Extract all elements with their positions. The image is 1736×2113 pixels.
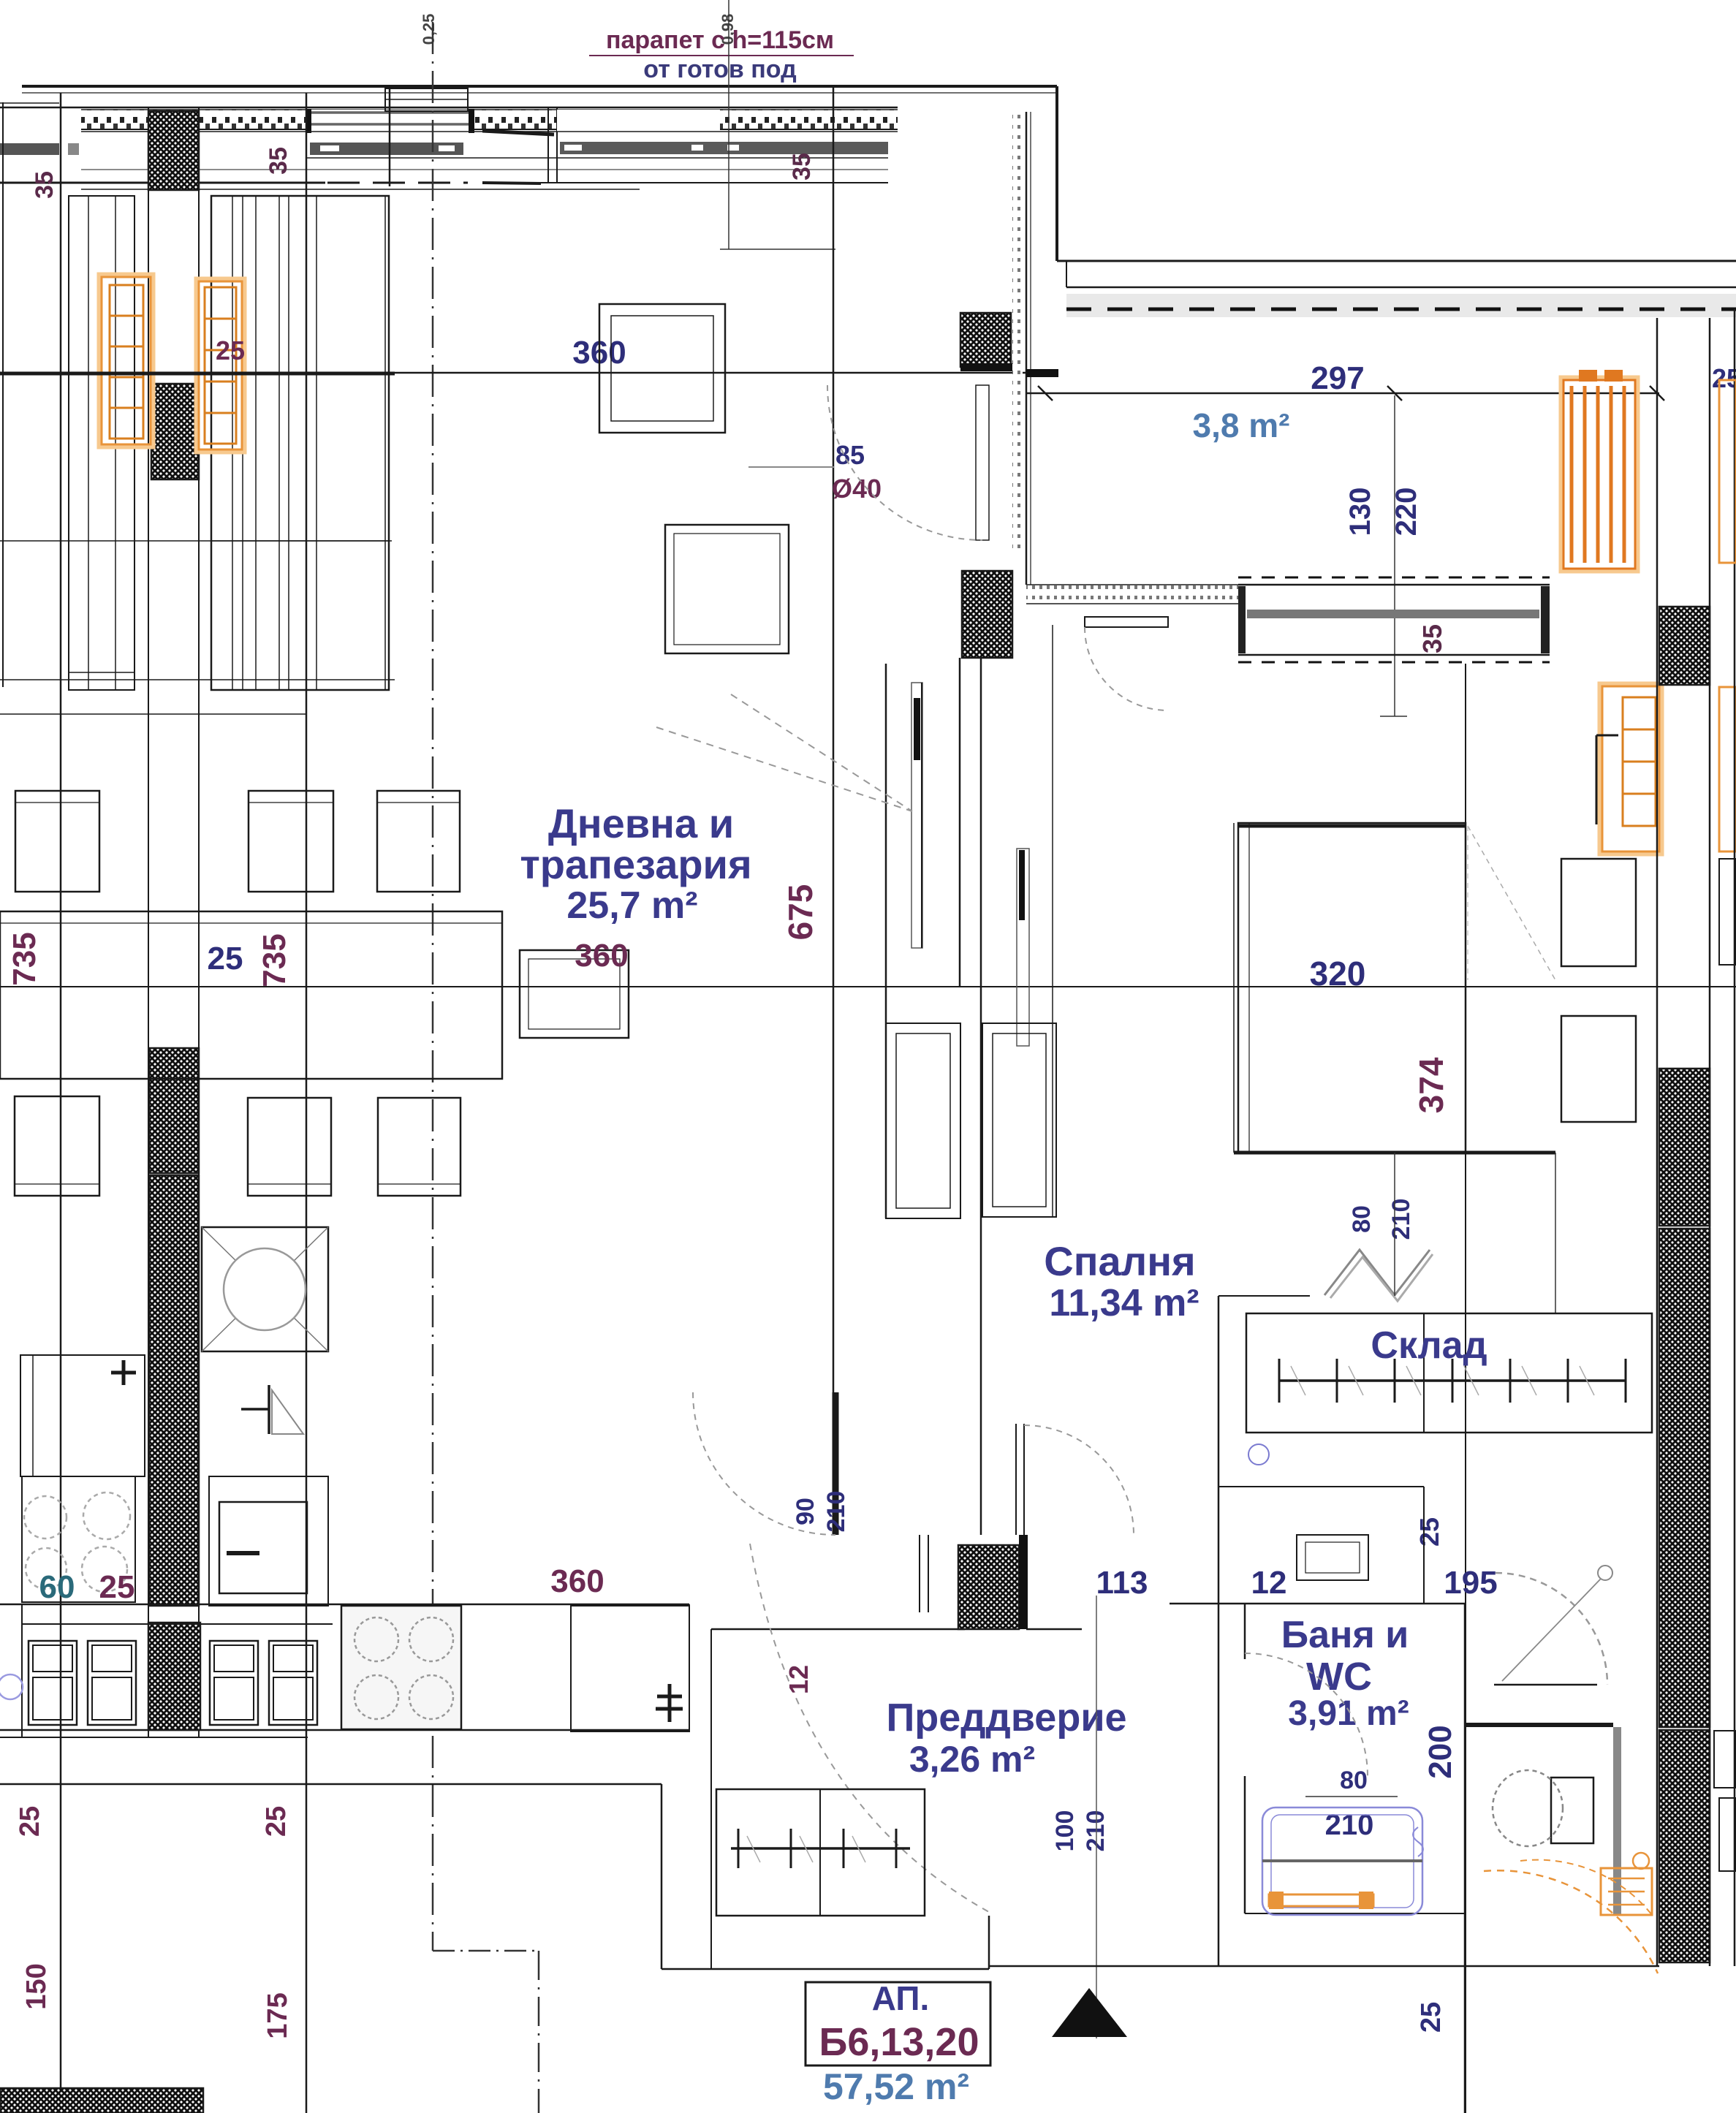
wardrobe A: [69, 196, 134, 690]
sill thin bottom: [81, 189, 640, 190]
radiator R1: [102, 277, 151, 444]
wall thick horizontal: [0, 372, 395, 376]
entry dim vline: [1096, 1596, 1097, 2038]
bedroom door arc2: [1024, 1425, 1134, 1535]
svg-text:80: 80: [1340, 1767, 1368, 1794]
room38 top dim line: [1026, 392, 1659, 395]
svg-text:57,52 m²: 57,52 m²: [823, 2066, 969, 2107]
grey sill bar window2: [560, 142, 717, 154]
party wall hatch block 2: [151, 384, 199, 479]
orange arcs bottom: [1484, 1870, 1658, 1973]
svg-text:210: 210: [1325, 1809, 1374, 1841]
dim line bedroom door: [1394, 1153, 1395, 1296]
bedroom right partial rect: [1719, 859, 1736, 965]
sofa: [665, 525, 789, 653]
shaft hatch long: [1659, 1069, 1710, 1226]
kitchen sink diagonals: [202, 1227, 328, 1351]
wall post x533: [389, 85, 391, 186]
svg-text:трапезария: трапезария: [520, 841, 751, 887]
kitchen counter mid: [209, 1476, 328, 1606]
entry top wall right: [1026, 1628, 1082, 1631]
radiator R1 glow: [99, 275, 153, 447]
grey sill bar right: [560, 142, 888, 154]
living door arc: [693, 1392, 835, 1535]
orange right sliver: [1719, 687, 1736, 851]
svg-text:Б6,13,20: Б6,13,20: [819, 2020, 979, 2064]
svg-text:113: 113: [1096, 1565, 1148, 1601]
bedroom wall line: [980, 571, 982, 1535]
wall thin continuation: [395, 372, 1058, 374]
bedroom door frame: [1015, 1424, 1017, 1535]
dim tick c: [1650, 386, 1664, 401]
svg-text:12: 12: [784, 1665, 814, 1694]
svg-text:85: 85: [835, 440, 865, 470]
svg-text:675: 675: [781, 884, 819, 941]
kitchen basin: [219, 1502, 307, 1593]
chair 2: [249, 791, 333, 892]
left edge line: [2, 102, 4, 687]
left stove burners: [24, 1496, 67, 1539]
kitchen wall line 2: [0, 1737, 308, 1738]
svg-text:735: 735: [7, 932, 42, 985]
svg-text:25: 25: [99, 1569, 135, 1605]
wardrobe orange bedroom: [1602, 686, 1659, 851]
plus sign entry: [656, 1707, 683, 1711]
party wall hatch block 4: [149, 1175, 199, 1606]
svg-text:0,25: 0,25: [420, 14, 438, 45]
left stove: [22, 1476, 135, 1602]
svg-text:WC: WC: [1306, 1655, 1372, 1699]
bath right wall: [1464, 1604, 1466, 2113]
sill black line b: [327, 182, 468, 184]
door38 arc: [827, 385, 982, 540]
grey sill bar window1: [310, 143, 463, 155]
svg-text:Баня и: Баня и: [1281, 1614, 1409, 1656]
svg-text:320: 320: [1310, 955, 1366, 993]
wc door arc: [1496, 1573, 1607, 1685]
chair 4: [15, 1096, 99, 1196]
svg-text:25,7 m²: 25,7 m²: [566, 884, 697, 927]
bed diagonal: [1468, 826, 1555, 980]
bedroom window frame: [1238, 584, 1550, 586]
svg-text:Спалня: Спалня: [1044, 1238, 1195, 1284]
shaft wall right top: [1656, 318, 1659, 607]
hatch block sliding wall: [962, 571, 1012, 658]
pocket door leaf bedroom: [1017, 849, 1029, 1046]
sklad zigzag door: [1324, 1250, 1430, 1295]
svg-text:80: 80: [1348, 1205, 1376, 1233]
bedroom window grey bar: [1247, 610, 1539, 618]
living-bedroom wall: [833, 85, 835, 1392]
svg-text:35: 35: [265, 147, 292, 175]
bedroom door arc: [1085, 627, 1168, 710]
right partial rect bottom: [1719, 1798, 1736, 1871]
kitchen sink circle: [224, 1248, 306, 1330]
toilet: [1551, 1778, 1593, 1843]
washing machine: [1297, 1535, 1368, 1580]
svg-text:Дневна и: Дневна и: [548, 800, 734, 846]
svg-text:25: 25: [1414, 1517, 1444, 1547]
hatch block top: [960, 313, 1011, 367]
neighbour wall right edge: [1734, 309, 1736, 1966]
blue symbol: [0, 1674, 23, 1699]
kitchen window wall: [0, 1729, 689, 1731]
kitchen wall axis: [306, 93, 308, 2113]
entry bottom wall: [662, 1968, 989, 1970]
bedroom axis vertical: [1465, 664, 1466, 2113]
svg-text:195: 195: [1444, 1565, 1497, 1601]
left wall axis: [60, 93, 62, 2088]
sklad knob circle: [1248, 1444, 1269, 1465]
svg-text:130: 130: [1344, 488, 1376, 536]
dim line 85: [748, 466, 834, 468]
door38 leaf: [976, 385, 989, 540]
svg-text:12: 12: [1251, 1565, 1287, 1601]
bed: [1238, 823, 1466, 1153]
wall corner right of balcony: [1055, 86, 1058, 261]
chair 1: [15, 791, 99, 892]
bath top wall: [1170, 1603, 1465, 1605]
door frame entry top: [919, 1535, 920, 1612]
kitchen bottom wall: [0, 1783, 662, 1786]
shaft hatch top: [1659, 607, 1710, 685]
apartment bottom wall right: [989, 1965, 1659, 1968]
svg-text:3,91 m²: 3,91 m²: [1288, 1694, 1409, 1733]
svg-text:25: 25: [15, 1806, 45, 1837]
cabinet row squares: [29, 1641, 77, 1725]
nightstand upper: [1561, 859, 1636, 966]
party wall line left: [148, 107, 149, 1737]
radiator R3: [1563, 380, 1635, 569]
table near window: [599, 304, 725, 433]
dining table: [0, 911, 502, 1079]
wall top balcony edge: [22, 85, 1057, 88]
svg-text:25: 25: [216, 335, 245, 365]
svg-text:150: 150: [21, 1963, 52, 2009]
wall niche line: [1423, 1487, 1425, 1604]
living door leaf: [833, 1392, 839, 1535]
bath left wall: [1244, 1604, 1246, 1659]
dim tick b: [1387, 386, 1402, 401]
window frame 2: [557, 110, 720, 132]
party wall hatch block 5: [148, 1623, 200, 1730]
svg-text:210: 210: [822, 1491, 850, 1533]
shoe hangers: [747, 1836, 760, 1862]
svg-text:360: 360: [550, 1563, 604, 1599]
radiator R2 glow: [197, 279, 244, 452]
orange boiler: [1601, 1868, 1652, 1915]
window joint posts: [547, 107, 549, 183]
radiator R3 glow: [1561, 378, 1637, 571]
bedroom window dashed top: [1238, 577, 1550, 579]
radiator R2: [199, 281, 242, 449]
svg-text:200: 200: [1422, 1725, 1458, 1778]
label box: [806, 1982, 990, 2065]
svg-text:АП.: АП.: [872, 1979, 929, 2017]
wall step top-right: [1057, 260, 1736, 262]
svg-text:Склад: Склад: [1371, 1324, 1487, 1367]
axis centerline dashdot: [432, 22, 434, 1951]
bath shelf line: [1262, 1859, 1422, 1862]
svg-text:25: 25: [1416, 2002, 1447, 2033]
svg-text:100: 100: [1051, 1810, 1079, 1852]
insulation dotted band: [81, 110, 898, 129]
kitchen wall bottom counter: [0, 1604, 689, 1606]
dim line 80 bath: [1305, 1796, 1398, 1797]
bath inner thick wall: [1465, 1723, 1613, 1727]
shoe cabinet: [716, 1789, 925, 1916]
wall line x1440: [1052, 625, 1053, 1217]
bath bottom wall: [1245, 1913, 1465, 1914]
coffee table: [520, 950, 629, 1038]
wall sklad top step: [1218, 1295, 1310, 1297]
left counter: [20, 1355, 145, 1476]
svg-text:25: 25: [261, 1806, 292, 1837]
towel rail orange: [1269, 1894, 1373, 1906]
dim line x2128: [1555, 1153, 1556, 1313]
plus sign left counter: [111, 1371, 136, 1375]
band bottom line: [81, 131, 898, 132]
bath grey door post: [1613, 1727, 1621, 1915]
svg-text:11,34 m²: 11,34 m²: [1049, 1282, 1199, 1324]
svg-text:3,8 m²: 3,8 m²: [1193, 406, 1290, 444]
AC unit on balcony: [385, 88, 468, 111]
entry left wall: [710, 1629, 712, 1969]
svg-text:210: 210: [1082, 1810, 1110, 1852]
cooktop: [341, 1606, 461, 1729]
sill black line c: [482, 183, 541, 183]
fridge: [571, 1606, 689, 1731]
svg-text:297: 297: [1311, 360, 1364, 396]
room38 texture strip: [1012, 112, 1023, 552]
entry right wall: [661, 1784, 663, 1969]
wardrobe orange bedroom glow: [1600, 684, 1661, 854]
svg-text:360: 360: [575, 938, 628, 974]
room38 sill block: [1026, 369, 1058, 377]
grey sill bar left: [0, 143, 59, 155]
chair 6: [378, 1098, 460, 1196]
shaft wall lines: [1656, 607, 1659, 1966]
parapet dim hline: [720, 249, 835, 250]
parapet dim vline: [728, 0, 729, 249]
black bar entry: [1019, 1535, 1028, 1629]
svg-text:735: 735: [257, 933, 292, 987]
dashed opening line top-right: [1066, 308, 1736, 311]
kitchen divider wall: [689, 1604, 690, 1731]
svg-text:25: 25: [1712, 363, 1736, 393]
wall step top-right inner: [1066, 261, 1067, 287]
shoe rail: [731, 1847, 910, 1850]
svg-text:35: 35: [31, 171, 58, 199]
window band dots: [1026, 585, 1238, 604]
entrance triangle: [1052, 1988, 1127, 2037]
wall line y740: [0, 540, 392, 542]
bedroom door leaf top: [1085, 617, 1168, 627]
entry top wall: [711, 1628, 965, 1631]
chair 5: [248, 1098, 331, 1196]
grey corridor band top-right: [1066, 294, 1736, 317]
bathtub: [1262, 1807, 1422, 1915]
svg-text:от готов под: от готов под: [643, 56, 796, 83]
party wall hatch block 3: [149, 1048, 199, 1173]
door frame lines: [885, 664, 887, 1218]
svg-text:Преддверие: Преддверие: [886, 1696, 1126, 1740]
wardrobe bottom lines: [0, 679, 395, 680]
nightstand lower: [1561, 1016, 1636, 1122]
window frame kitchen: [306, 110, 474, 132]
bottom hatch band: [0, 2088, 203, 2113]
svg-text:210: 210: [1387, 1199, 1415, 1240]
svg-text:25: 25: [208, 941, 243, 976]
sklad box: [1246, 1313, 1652, 1433]
room38 left wall: [1026, 112, 1028, 585]
sklad hanger marks: [1291, 1366, 1305, 1395]
wardrobe W1: [886, 1023, 960, 1218]
svg-text:60: 60: [39, 1569, 75, 1605]
svg-text:374: 374: [1412, 1057, 1450, 1113]
svg-text:90: 90: [792, 1498, 819, 1525]
party wall hatch block 1: [148, 111, 199, 190]
entry arc: [750, 1544, 989, 1912]
kitchen sink unit: [202, 1227, 328, 1351]
cabinet row line: [22, 1623, 333, 1625]
kitchen faucet: [268, 1385, 270, 1434]
hook line bedroom: [1596, 735, 1598, 824]
svg-text:35: 35: [788, 153, 816, 181]
svg-text:парапет с h=115см: парапет с h=115см: [606, 26, 834, 54]
chair 3: [377, 791, 460, 892]
svg-text:175: 175: [262, 1992, 293, 2038]
svg-text:Ø40: Ø40: [832, 474, 882, 504]
svg-text:3,26 m²: 3,26 m²: [909, 1739, 1035, 1780]
dim tick a: [1038, 386, 1053, 401]
bedroom window dashed bottom: [1238, 661, 1550, 664]
wardrobe W2: [982, 1023, 1056, 1217]
radiator right sliver: [1719, 380, 1736, 563]
bedroom window posts: [1238, 586, 1246, 653]
bath door arc: [1245, 1653, 1368, 1776]
hatch block entry: [958, 1545, 1019, 1629]
party wall line right: [198, 107, 200, 1737]
sklad rail: [1279, 1379, 1626, 1382]
grid line horizontal mid: [0, 986, 1736, 987]
wardrobe B: [211, 196, 389, 690]
dim line 130-220: [1394, 395, 1395, 716]
sill black line a: [0, 182, 325, 184]
window sill line: [0, 107, 898, 109]
sklad divider: [1423, 1313, 1425, 1433]
svg-text:35: 35: [1417, 624, 1447, 653]
entry step wall: [988, 1916, 990, 1969]
door dashes grey: [731, 694, 912, 811]
pocket door leaf living: [911, 683, 922, 948]
wall sklad left: [1218, 1296, 1220, 1966]
grey sill bar small: [68, 143, 79, 155]
